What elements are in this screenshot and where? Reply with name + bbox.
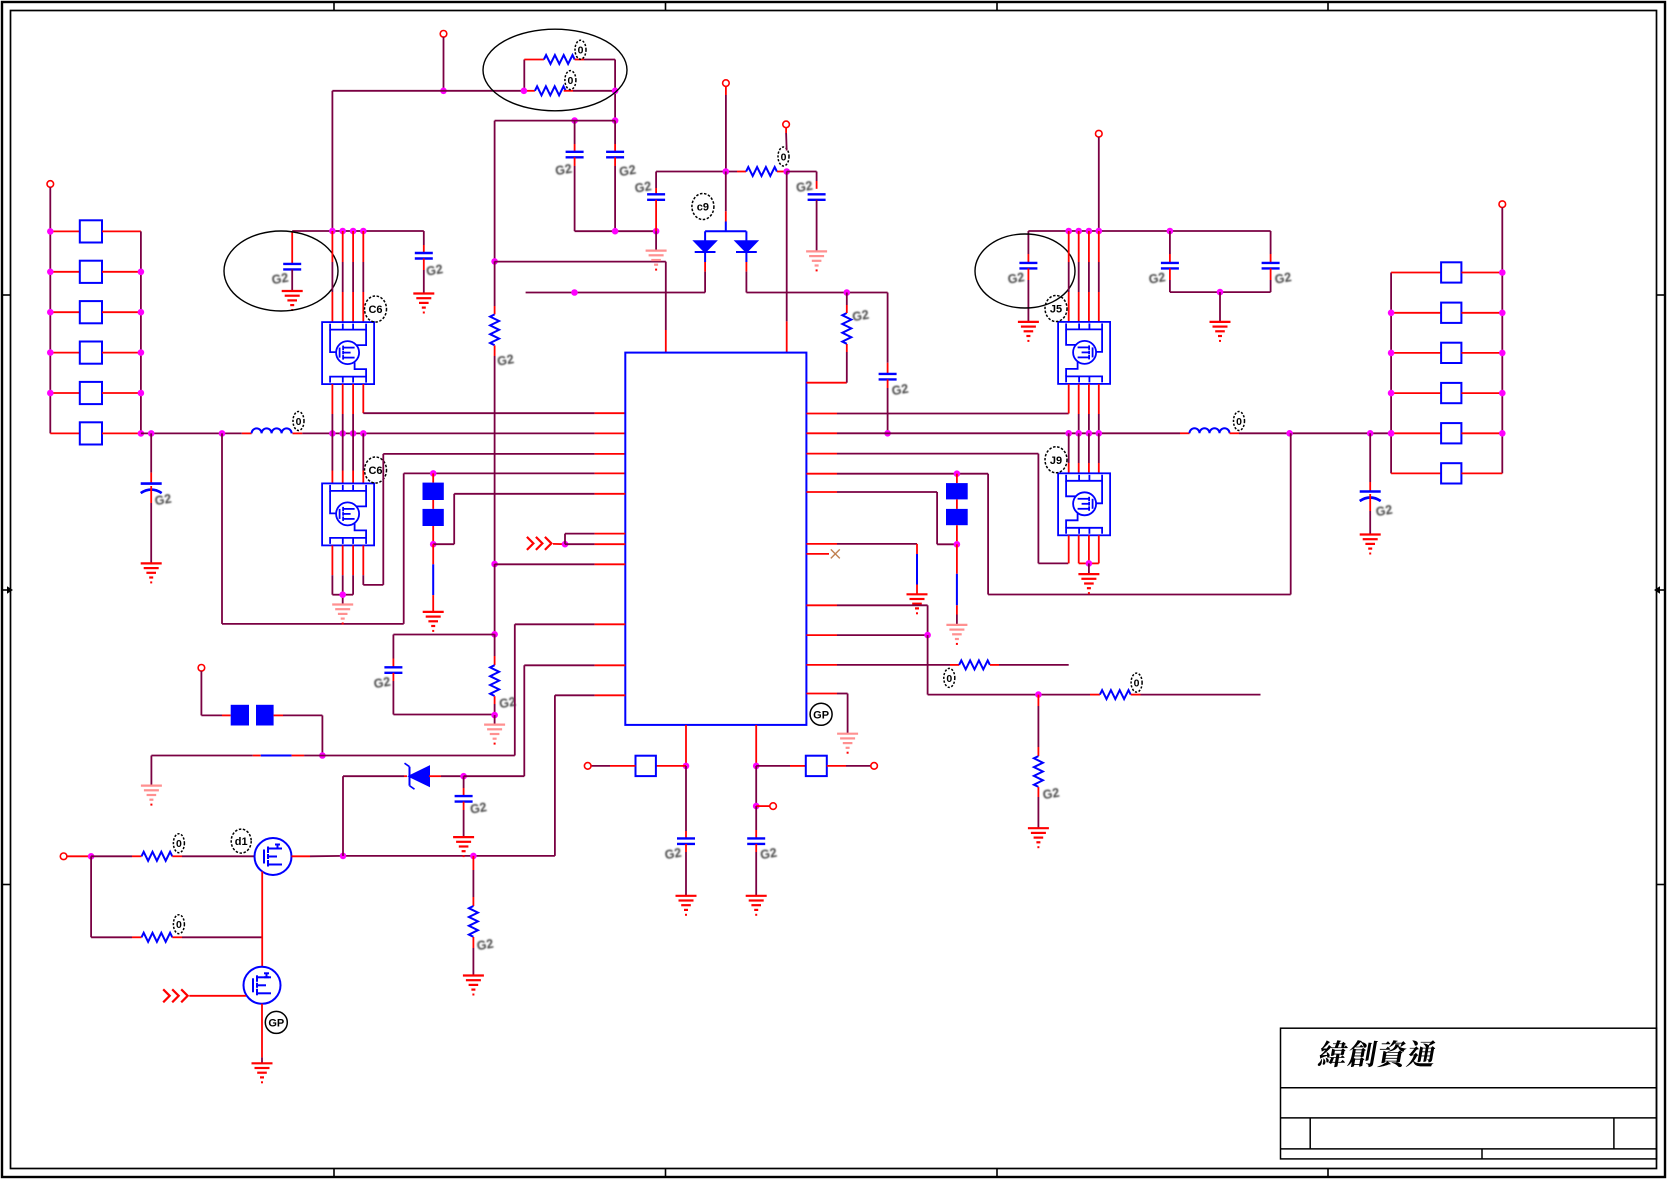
terminal bottom-left supply (198, 665, 205, 672)
fuse F6 left column row 6 (50, 432, 80, 434)
capacitor C1 decoupling (574, 121, 576, 144)
zener diode D3 (405, 763, 430, 789)
ground below C6a (413, 294, 434, 308)
junction dots right column mini bus (1388, 310, 1395, 317)
value label R6 (173, 834, 184, 853)
resistor R5 vertical lower (490, 665, 499, 696)
svg-text:C6: C6 (368, 304, 382, 316)
svg-text:0: 0 (1134, 678, 1140, 690)
fuse FR1 right column row 1 (1391, 272, 1441, 274)
wire left column right mini bus (140, 231, 142, 433)
node below left squares dot (430, 541, 437, 548)
node gate input dot (88, 853, 95, 860)
wire IC pin665 route (524, 664, 594, 666)
wire J5 source pins to bus (1078, 384, 1080, 414)
fuse F5 left column row 5 (50, 392, 80, 394)
wire IC pin 453 J9 gate route (806, 453, 837, 455)
wire below right squares (956, 525, 958, 544)
wire Q5 pin4 from bus (362, 433, 364, 470)
wire IC pin 635 route (806, 634, 837, 636)
wire IC pin695 route (555, 694, 595, 696)
title block company name text (1317, 1040, 1437, 1067)
wire C12 C13 common rail (1170, 291, 1271, 293)
wire IC top pin2 vertical (786, 172, 788, 322)
ground below C8 (453, 837, 474, 851)
node ellipse right dot upper (521, 88, 528, 95)
svg-text:G2: G2 (851, 307, 870, 324)
right edge zone arrow (1660, 589, 1665, 591)
wire pin B down to tap node (755, 766, 757, 806)
node rail resistor branch dot (1035, 691, 1042, 698)
wire below C9b (755, 844, 757, 852)
value label R1 (575, 40, 586, 59)
node ellipse output dots (612, 88, 619, 95)
wire below C4 (816, 200, 818, 252)
wire Q7 drain to rail (292, 855, 311, 857)
reference label c9 for diode pair (692, 194, 714, 220)
ground below C9a (676, 896, 697, 910)
value label L1 (293, 412, 304, 431)
wire x494 to IC pin (495, 563, 595, 565)
fuse F4 left column row 4 (50, 352, 80, 354)
wire J5 gate pin down to gate wire (1068, 384, 1070, 414)
fuse FR6 right column row 6 (1391, 472, 1441, 474)
svg-text:G2: G2 (891, 382, 910, 399)
wire right bulk cap branch (1369, 433, 1371, 482)
left edge zone arrow (2, 589, 7, 591)
junction dots left column mini bus (138, 269, 145, 276)
ground below J9 (1078, 574, 1099, 588)
terminal SA (584, 763, 591, 770)
wire J5 drain verticals (1068, 231, 1070, 262)
node J9 source dot (1086, 560, 1093, 567)
wire J9 gate pin to gate route (1068, 535, 1070, 563)
wire Q8 source to ground (261, 1004, 263, 1058)
wire Q6 source pins down (331, 384, 333, 414)
wire tap to cap C9b (755, 806, 757, 830)
capacitor CB2 polarized right (1360, 492, 1381, 502)
resistor R11 vertical (1034, 756, 1043, 787)
wire bus left end to ground (150, 756, 152, 786)
svg-text:J5: J5 (1050, 304, 1062, 316)
node pin A dot (683, 763, 690, 770)
wire main bus to IC left pin (302, 432, 594, 434)
ground salmon below C3 rail (646, 251, 667, 265)
svg-text:G2: G2 (476, 936, 495, 953)
node bus cap branch dot (148, 430, 155, 437)
wire R5 stem (494, 634, 496, 656)
resistor R12 (959, 660, 990, 669)
wire pin635 down to bottom rail (927, 635, 929, 695)
junction dots mid rail (571, 289, 578, 296)
wire y261 to IC top pin1 (495, 261, 666, 263)
wire right column mini bus (1390, 273, 1392, 474)
wire C3 node stem to ground (655, 231, 657, 250)
terminal phase right top (1096, 130, 1103, 137)
resistor R9 feedback vertical (846, 352, 848, 383)
capacitor C4 (808, 194, 826, 200)
mosfet Q7 pass transistor (255, 838, 292, 875)
mosfet Q5 package low-side (322, 483, 374, 545)
wire R5 node to ground (494, 715, 496, 725)
wire below C9a (685, 844, 687, 852)
ground salmon below right zener (946, 625, 967, 639)
reference label J5 (1045, 296, 1067, 322)
drain rail y856 with junctions (343, 855, 555, 857)
wire RC loop top (393, 634, 494, 636)
wire IC pin 665 to R12 (806, 664, 837, 666)
capacitor C9b (747, 838, 765, 844)
wire D3 node cap stem (463, 776, 465, 788)
wire pin A cap stem (685, 766, 687, 831)
wire below bulk cap (150, 486, 152, 503)
node chevron dot (562, 541, 569, 548)
zone tick marks right edge (1657, 294, 1666, 296)
wire main bus left segment (141, 432, 242, 434)
right phase top rail y231 (1028, 230, 1270, 232)
svg-text:G2: G2 (496, 352, 515, 369)
inductor L2 (1190, 428, 1230, 433)
wire inductor right stub (293, 432, 303, 434)
svg-text:G2: G2 (425, 262, 444, 279)
capacitor C5 in highlight ellipse (291, 231, 293, 264)
capacitor C3 (655, 172, 657, 189)
junction dots right rail (1065, 228, 1072, 235)
svg-text:0: 0 (946, 673, 952, 685)
wire below R11 (1037, 787, 1039, 797)
wire right column terminal stem (1501, 208, 1503, 273)
mosfet Q6 package high-side (322, 322, 374, 384)
capacitor C2 decoupling (614, 121, 616, 144)
junction dots bus at Q6 verticals (329, 430, 336, 437)
capacitor C11 in highlight ellipse (1027, 231, 1029, 254)
wire to R6 (91, 855, 132, 857)
node below right squares dot (954, 541, 961, 548)
node x494 IC pin dot (491, 561, 498, 568)
wire IC pin 433 bus right (806, 432, 837, 434)
wire RC loop bottom (393, 714, 494, 716)
svg-text:GP: GP (268, 1017, 284, 1029)
wire Q6 gate pin to IC (362, 384, 364, 413)
wire drain rail resistor branch (472, 856, 474, 870)
ground salmon below R5 (484, 725, 505, 739)
wire VIN to ellipse resistors (444, 90, 525, 92)
title block frame (1281, 1028, 1657, 1159)
svg-text:0: 0 (176, 838, 182, 850)
inductor L1 (252, 428, 292, 433)
IC U1 main controller body (625, 353, 806, 725)
wire long x494 vertical mid (494, 261, 496, 306)
wire top rail y231 left phase (292, 230, 424, 232)
wire chevron to node (553, 543, 565, 545)
wire Q5 gate route to IC (362, 545, 364, 575)
svg-text:G2: G2 (271, 271, 290, 288)
wire R3 right stub (777, 171, 787, 173)
wire mid rail y292 left of diodes (526, 292, 706, 294)
reference label Q7 (231, 829, 251, 853)
node right squares top dot (954, 470, 961, 477)
ground salmon below Q5 (332, 605, 353, 619)
wire below R4 (494, 345, 496, 356)
wire below C10 to bus (887, 379, 889, 388)
svg-text:G2: G2 (759, 846, 778, 863)
wire to R7 (91, 936, 132, 938)
node Q5 source merge dot (339, 591, 346, 598)
terminal VREF small (783, 121, 790, 128)
mosfet J9 package low-side right (1058, 473, 1110, 535)
value label R3 (778, 147, 789, 166)
wire below CB2 (1369, 494, 1371, 511)
node C10 bus dot (884, 430, 891, 437)
wire between right squares (956, 499, 958, 509)
highlight ellipse around R1 R2 (483, 29, 627, 111)
wire IC right pin 383 to R9 (806, 382, 846, 384)
value label L2 (1234, 412, 1245, 431)
wire IC pin 473 long loop right (806, 473, 837, 475)
svg-text:G2: G2 (1375, 502, 1394, 519)
capacitor C7 RC filter (384, 667, 402, 673)
wire left column terminal stem (49, 187, 51, 231)
wire SA to terminal (610, 765, 636, 767)
resistor R3 on y171 rail (746, 167, 777, 176)
svg-text:G2: G2 (469, 800, 488, 817)
terminal VCC mid (723, 80, 730, 87)
node VIN dot (440, 88, 447, 95)
wire below-squares route to IC pin (433, 543, 454, 545)
jumper pad blue square right lower (946, 509, 968, 525)
svg-text:0: 0 (567, 75, 573, 87)
fuse F3 left column row 3 (50, 311, 80, 313)
wire chevron to Q8 gate (189, 995, 246, 997)
wire terminal to node (67, 855, 91, 857)
wire below C8 (463, 802, 465, 810)
wire D3 node to pin665 vertical (464, 775, 525, 777)
terminal tap (770, 803, 777, 810)
ground below pin544 zener (907, 594, 928, 608)
svg-text:G2: G2 (1274, 270, 1293, 287)
resistor R4 vertical upper (490, 314, 499, 345)
wire node A horizontal y121 (495, 120, 615, 122)
wire IC pin 694 to ground (806, 693, 837, 695)
fuse F2 left column row 2 (50, 271, 80, 273)
reference label J9 (1045, 447, 1067, 473)
wire between left squares (432, 500, 434, 509)
capacitor C6a right of ellipse (423, 231, 425, 245)
svg-text:C6: C6 (368, 465, 382, 477)
wire IC pin squares-node route (430, 470, 437, 477)
junction dots cap rail (612, 228, 619, 235)
node x494 y261 dot (491, 258, 498, 265)
wire IC pin 544 zener to ground (806, 543, 837, 545)
node pin B dot (753, 763, 760, 770)
node RC top dot (491, 631, 498, 638)
wire bulk cap stem (150, 433, 152, 472)
jumper pad blue square right upper (946, 483, 968, 499)
svg-text:d1: d1 (235, 836, 248, 848)
wire below D1 (704, 252, 706, 262)
resistor R8 to ground (469, 906, 478, 937)
wire Q7 source down to Q8 drain (261, 872, 263, 967)
capacitor C9a (677, 838, 695, 844)
wire diode anode feed (725, 172, 727, 212)
wire Q6 drain verticals from top rail (331, 231, 333, 262)
svg-text:J9: J9 (1050, 455, 1062, 467)
wire R11 branch down (1037, 695, 1039, 706)
fuse FR3 right column row 3 (1391, 352, 1441, 354)
svg-text:G2: G2 (1042, 786, 1061, 803)
wire long vertical x494 upper (494, 121, 496, 262)
wire common rail to ground (1219, 292, 1221, 322)
wire J9 source stem (1088, 563, 1090, 574)
svg-text:0: 0 (296, 416, 302, 428)
value label R2 (565, 71, 576, 90)
capacitor C10 (879, 374, 897, 380)
wire inductor L2 left stub (1180, 432, 1190, 434)
zone tick marks bottom edge (333, 1169, 335, 1178)
svg-text:G2: G2 (1007, 270, 1026, 287)
wire L2 right stub (1230, 432, 1240, 434)
wire right column right bus (1501, 273, 1503, 474)
svg-text:0: 0 (176, 919, 182, 931)
reference label Q5 (365, 457, 387, 483)
ground salmon below C4 (806, 251, 827, 265)
wire inductor left stub (242, 432, 252, 434)
highlight ellipse around C11 (975, 234, 1075, 308)
svg-text:0: 0 (781, 152, 787, 164)
supply bus y755 with blue segment (151, 755, 252, 757)
wire IC pin 554 no-connect stub (806, 553, 829, 555)
sense square SA (636, 756, 656, 776)
ground below R8 (463, 976, 484, 990)
wire left column left bus (49, 231, 51, 433)
wire D3 to node (429, 775, 441, 777)
mosfet Q8 small-signal (244, 967, 281, 1004)
mosfet J5 package high-side right (1058, 322, 1110, 384)
wire R10 right (1131, 694, 1141, 696)
ground below C5 (282, 291, 303, 305)
capacitor CB1 polarized (141, 484, 162, 494)
svg-text:GP: GP (813, 709, 829, 721)
fuse F1 left column row 1 (50, 230, 80, 232)
wire J9 drain pins from bus (1068, 433, 1070, 463)
wire chevron node to IC pins (564, 534, 566, 545)
node R5 ground dot (491, 712, 498, 719)
wire IC bottom pin A (685, 725, 687, 766)
wire from VIN terminal down (443, 37, 445, 91)
ground salmon right of IC (837, 734, 858, 748)
junction dots left column left bus (47, 228, 54, 235)
jumper pad blue square left upper (423, 483, 444, 500)
node R3 output dot (783, 168, 790, 175)
reference label GP near IC corner (810, 703, 832, 725)
svg-text:G2: G2 (373, 675, 392, 692)
wire R7 to interstage node (172, 936, 182, 938)
wire pin B to sense square right (756, 765, 790, 767)
jumper pad blue square left lower (423, 509, 444, 526)
svg-text:G2: G2 (618, 163, 637, 180)
wire below D2 (745, 252, 747, 262)
terminal gate drive input (60, 853, 67, 860)
node common rail dot (1217, 289, 1224, 296)
diode D2 right of pair (736, 241, 757, 252)
ground below Q8 (252, 1063, 273, 1077)
wire below R5 (494, 696, 496, 704)
ground below left zener (423, 612, 444, 626)
sense square SB (806, 756, 827, 776)
highlight ellipse around C5 (224, 231, 338, 311)
wire x494 down to RC node (494, 564, 496, 634)
wire pin A to sense square (656, 765, 686, 767)
wire to filter squares (201, 714, 222, 716)
wire IC pin 413 to J5 gate (806, 413, 837, 415)
wire rail to cap C4 (787, 171, 817, 173)
fuse FR4 right column row 4 (1391, 392, 1441, 394)
wire y171 rail (656, 171, 737, 173)
wire RC loop left cap (392, 635, 394, 659)
wire IC pin 492 route to squares (806, 491, 837, 493)
wire cap common rail y231 (575, 230, 657, 232)
svg-text:G2: G2 (664, 846, 683, 863)
value label R7 (173, 915, 184, 934)
svg-text:0: 0 (578, 45, 584, 57)
wire R9 top to mid rail (846, 305, 848, 313)
wire feedback loop down-left (221, 433, 223, 624)
input chevron marker left (527, 537, 552, 550)
wire zener branch below left squares (432, 544, 434, 564)
junction dots right bus (1286, 430, 1293, 437)
value label R10 (1131, 673, 1142, 692)
wire terminal down to rail (1098, 137, 1100, 231)
svg-text:G2: G2 (795, 179, 814, 196)
svg-text:c9: c9 (697, 202, 709, 214)
svg-text:G2: G2 (154, 492, 173, 509)
ground below CB1 (141, 563, 162, 577)
ground below CB2 (1360, 535, 1381, 549)
terminal right column top (1499, 201, 1506, 208)
wire IC pin624 route (515, 623, 595, 625)
wire VREF terminal to node (785, 128, 787, 133)
no-connect X marker (831, 549, 840, 558)
svg-text:G2: G2 (554, 162, 573, 179)
junction dots top rail at Q6 (329, 228, 336, 235)
capacitor C8 (455, 796, 473, 802)
terminal P1 left column top (47, 181, 54, 188)
resistor R6 gate (142, 852, 173, 861)
wire Q5 source pins to ground merge (331, 545, 333, 575)
input chevron marker Q8 gate (163, 989, 188, 1002)
wire ellipse right vertical (614, 60, 616, 121)
terminal SB (871, 763, 878, 770)
wire tap stub to terminal (756, 805, 770, 807)
wire diode pair top rail blue (705, 230, 746, 232)
wire zener rail (343, 775, 404, 777)
wire zener D3 branch vertical (342, 776, 344, 856)
ground below C9b (746, 896, 767, 910)
ground below common rail (1210, 322, 1231, 336)
wire below left squares (432, 526, 434, 544)
wire input node down (90, 856, 92, 937)
wire mid rail y292 right of diodes (746, 292, 887, 294)
wire after beads (274, 714, 283, 716)
reference label Q6 (365, 296, 387, 322)
node beads-bus dot (319, 752, 326, 759)
svg-text:G2: G2 (1148, 270, 1167, 287)
wire J9 source pins to ground (1078, 535, 1080, 563)
wire VCC terminal down (725, 86, 727, 95)
wire R6 to Q7 gate (172, 855, 182, 857)
svg-text:G2: G2 (634, 179, 653, 196)
node bus loop branch dot (219, 430, 226, 437)
